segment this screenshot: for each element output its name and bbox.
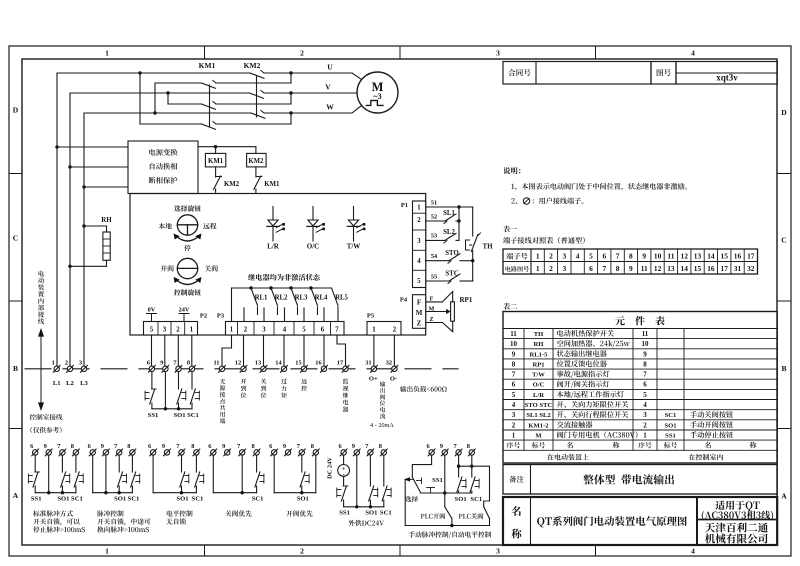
wire L2 feeder vertical: [69, 93, 71, 366]
svg-text:6: 6: [589, 264, 593, 273]
svg-text:RL4: RL4: [315, 295, 328, 302]
svg-text:1: 1: [52, 360, 55, 367]
svg-text:52: 52: [431, 214, 437, 221]
svg-text:1: 1: [372, 327, 376, 334]
svg-text:P3: P3: [217, 313, 225, 320]
svg-text:RL5: RL5: [335, 295, 348, 302]
svg-text:31: 31: [734, 264, 742, 273]
svg-text:SO1: SO1: [176, 496, 188, 503]
example G close contact SC1: [470, 455, 482, 503]
drawing number value box xqt3v: [676, 62, 777, 85]
wire phase W horizontal: [84, 106, 362, 114]
svg-text:13: 13: [255, 360, 261, 367]
node W tap junction: [153, 111, 156, 114]
note 2 text: [511, 197, 583, 204]
label terminal 14 function: [281, 379, 287, 398]
example G junction wire: [421, 491, 472, 494]
svg-text:xqt3v: xqt3v: [716, 73, 738, 83]
svg-text:8: 8: [379, 443, 382, 450]
terminal cross-reference table: [503, 249, 758, 274]
svg-text:KM2: KM2: [248, 158, 264, 165]
svg-text:3: 3: [512, 411, 516, 419]
svg-text:SC1: SC1: [380, 510, 392, 517]
title block: [503, 497, 777, 545]
svg-text:KM1: KM1: [264, 181, 280, 188]
wire W rise to KM1 upper contact: [155, 83, 202, 113]
wire phase taps into protection box: [55, 145, 128, 188]
terminal 8 row B: [187, 360, 196, 373]
frame zone column labels 1-4 top: [105, 49, 695, 58]
svg-text:4: 4: [417, 258, 421, 265]
svg-text:RH: RH: [534, 341, 545, 348]
terminal 16 row B: [315, 360, 327, 373]
svg-text:3: 3: [496, 49, 500, 58]
contact PLC open: [421, 493, 452, 526]
wires P5 to terminals 31 32: [374, 335, 395, 366]
wire phase U horizontal: [57, 73, 362, 80]
terminal 7 row B: [173, 360, 182, 373]
svg-text:SS1: SS1: [432, 477, 443, 484]
svg-text:KM1-2: KM1-2: [528, 422, 549, 429]
applicability box: [697, 500, 777, 520]
svg-text:1: 1: [105, 49, 109, 58]
svg-text:11: 11: [641, 264, 648, 273]
connector P1: [401, 201, 426, 288]
example A wire 9: [48, 455, 50, 493]
svg-text:9: 9: [512, 350, 516, 358]
example E wire 6: [273, 455, 275, 493]
svg-text:SS1: SS1: [665, 433, 676, 440]
svg-text:17: 17: [337, 360, 344, 367]
example G wire 9: [444, 455, 446, 493]
label L2: [66, 380, 74, 387]
svg-text:L3: L3: [80, 380, 88, 387]
svg-text:32: 32: [747, 264, 755, 273]
example F common bus: [344, 505, 384, 508]
svg-text:2: 2: [393, 327, 397, 334]
example A terminals 6 9 7 8: [30, 443, 79, 456]
limit switch SL2: [426, 221, 459, 243]
label L3: [80, 380, 88, 387]
frame zone column labels 1-4 bottom: [105, 547, 695, 556]
svg-text:T/W: T/W: [532, 372, 545, 379]
svg-text:P5: P5: [367, 313, 375, 320]
note 1 text: [511, 183, 687, 191]
label terminal 12 function: [241, 379, 247, 398]
arrow up internal side: [38, 328, 44, 369]
svg-text:RP1: RP1: [532, 361, 544, 368]
svg-text:10: 10: [654, 252, 662, 261]
relay contact RL2: [269, 286, 288, 314]
torque switch STO: [426, 250, 475, 263]
svg-text:6: 6: [602, 252, 606, 261]
svg-text:KM2: KM2: [224, 181, 240, 188]
svg-text:5: 5: [150, 327, 154, 334]
wire terminal 9 to common: [164, 372, 166, 409]
svg-text:O-: O-: [390, 376, 397, 383]
svg-text:KM2: KM2: [244, 61, 261, 70]
svg-text:DC 24V: DC 24V: [327, 457, 334, 479]
notes heading: [503, 167, 520, 174]
svg-text:8: 8: [616, 264, 620, 273]
resistor RH space heater: [68, 216, 112, 268]
svg-text:4: 4: [691, 547, 695, 556]
svg-text:A: A: [781, 492, 787, 501]
control knob open-close: [161, 258, 218, 295]
svg-text:9: 9: [352, 443, 355, 450]
example E wire 8: [315, 455, 317, 493]
svg-text:1: 1: [643, 432, 647, 440]
actuator control unit box U1: [130, 194, 426, 336]
svg-text:P1: P1: [401, 202, 408, 209]
example E caption: [286, 510, 312, 516]
label terminal U: [327, 63, 333, 72]
svg-text:RL1-5: RL1-5: [530, 351, 549, 358]
svg-text:13: 13: [667, 264, 675, 273]
manufacturer name: [705, 522, 768, 543]
relay contact RL1: [249, 286, 268, 314]
wire coil supply: [198, 145, 256, 148]
svg-text:17: 17: [747, 252, 755, 261]
limit switch SL1: [426, 207, 461, 224]
svg-text:8: 8: [311, 443, 314, 450]
example C common bus: [153, 491, 196, 494]
svg-text:SO1: SO1: [455, 496, 467, 503]
svg-text:3: 3: [496, 547, 500, 556]
svg-text:2: 2: [512, 421, 516, 429]
terminal 14 row B: [275, 360, 287, 373]
example B common bus: [93, 491, 133, 494]
svg-text:15: 15: [721, 252, 729, 261]
svg-text:5: 5: [417, 278, 421, 285]
example C close switch SC1: [192, 455, 204, 502]
svg-text:14: 14: [707, 252, 715, 261]
label 0V supply: [147, 307, 157, 322]
svg-text:L2: L2: [66, 380, 74, 387]
svg-text:SS1: SS1: [339, 510, 350, 517]
svg-text:RP1: RP1: [460, 296, 473, 304]
terminal 31 row B: [365, 360, 377, 373]
svg-text:8: 8: [643, 360, 647, 368]
connector P2: [144, 313, 208, 336]
relay contact bus: [232, 288, 332, 322]
svg-text:O+: O+: [369, 376, 378, 383]
remarks box: [503, 465, 777, 495]
example D wire 7: [241, 455, 243, 493]
svg-text:SS1: SS1: [31, 496, 42, 503]
wire 51 common: [426, 200, 473, 209]
terminal 1 row B: [52, 360, 61, 373]
svg-text:SC1: SC1: [470, 496, 482, 503]
frame zone row labels D C B A left: [13, 106, 19, 501]
example B terminals 6 9 7 8: [88, 443, 136, 456]
node V tap junction: [166, 91, 169, 94]
svg-text:9: 9: [101, 443, 104, 450]
svg-text:KM1: KM1: [199, 61, 216, 70]
svg-text:SC1: SC1: [252, 496, 264, 503]
svg-text:2: 2: [549, 264, 553, 273]
svg-text:12: 12: [654, 264, 662, 273]
svg-text:16: 16: [734, 252, 742, 261]
wire U drop to KM1 lower contact: [140, 73, 202, 124]
svg-text:8: 8: [127, 443, 130, 450]
example D terminals 6 9 7 8: [208, 443, 260, 456]
svg-text:4: 4: [512, 401, 516, 409]
svg-text:7: 7: [512, 371, 516, 379]
thermal switch TH: [466, 207, 494, 281]
svg-text:5: 5: [589, 252, 593, 261]
label terminal V: [325, 83, 331, 92]
svg-text:SO1: SO1: [57, 496, 69, 503]
svg-text:1: 1: [536, 264, 540, 273]
svg-text:14: 14: [275, 360, 282, 367]
svg-text:3: 3: [163, 327, 167, 334]
svg-text:O/C: O/C: [533, 382, 545, 389]
example G selector switch: [404, 455, 443, 502]
connector P5: [367, 313, 401, 336]
svg-text:12: 12: [235, 360, 241, 367]
svg-text:KM1: KM1: [208, 158, 224, 165]
power conversion protection box: [128, 141, 198, 194]
svg-text:6: 6: [512, 381, 516, 389]
relay contact RL4: [309, 286, 328, 314]
svg-text:8: 8: [512, 360, 516, 368]
svg-text:1: 1: [417, 205, 421, 212]
svg-text:SC1: SC1: [71, 496, 83, 503]
frame zone row labels D C B A right: [781, 108, 787, 501]
svg-text:2: 2: [300, 49, 304, 58]
svg-text:RL2: RL2: [275, 295, 288, 302]
svg-text:SO1: SO1: [365, 510, 377, 517]
svg-text:U: U: [327, 63, 333, 72]
svg-text:SO1: SO1: [664, 422, 676, 429]
svg-text:L1: L1: [53, 380, 61, 387]
label internal wiring vertical: [38, 271, 44, 325]
svg-text:C: C: [13, 234, 18, 243]
svg-text:3: 3: [79, 360, 82, 367]
svg-text:5: 5: [643, 391, 647, 399]
svg-text:SC1: SC1: [192, 496, 204, 503]
svg-text:8: 8: [187, 360, 190, 367]
contactor KM2 main contacts: [250, 70, 266, 118]
svg-text:16: 16: [707, 264, 715, 273]
svg-text:8: 8: [251, 443, 254, 450]
example F close button SC1: [380, 455, 392, 516]
stop button SS1 wired: [145, 372, 158, 420]
svg-text:SL1 SL2: SL1 SL2: [526, 412, 551, 419]
contact PLC close: [459, 507, 490, 526]
svg-text:3: 3: [262, 327, 266, 334]
interlock contact KM1 normally closed: [254, 167, 280, 194]
example G lower bus: [405, 479, 489, 527]
contactor KM2 label: [244, 61, 261, 70]
svg-text:8: 8: [629, 252, 633, 261]
example B open button SO1: [114, 455, 126, 502]
example B caption: [97, 510, 150, 532]
label terminal W: [326, 103, 334, 112]
svg-text:SC1: SC1: [128, 496, 140, 503]
example A stop button SS1: [28, 455, 41, 502]
drawing number box: [651, 62, 676, 85]
wire V to KM1 middle contact: [168, 93, 202, 104]
svg-text:SO1: SO1: [297, 496, 309, 503]
svg-text:5: 5: [302, 327, 306, 334]
example D wire 6: [212, 455, 214, 493]
svg-text:1: 1: [105, 547, 109, 556]
svg-text:~3: ~3: [373, 92, 381, 101]
label output position current vertical: [380, 381, 386, 418]
example A common bus: [35, 491, 76, 494]
terminal 32 row B: [386, 360, 398, 373]
svg-text:32: 32: [386, 360, 392, 367]
contract number box: [503, 62, 651, 85]
example F caption: [348, 520, 384, 526]
svg-text:31: 31: [365, 360, 371, 367]
connector P4: [400, 295, 426, 329]
svg-text:10: 10: [642, 340, 650, 348]
wires relay outputs to connector P3: [244, 308, 324, 322]
svg-text:O/C: O/C: [307, 243, 319, 251]
svg-text:P2: P2: [200, 313, 207, 320]
example C wire 6: [152, 455, 154, 493]
svg-text:RH: RH: [101, 216, 112, 224]
svg-text:10: 10: [510, 340, 518, 348]
relay contact RL5: [332, 288, 349, 322]
svg-text:F: F: [417, 299, 421, 307]
svg-text:11: 11: [213, 360, 219, 367]
svg-text:7: 7: [335, 327, 339, 334]
label terminal 15 function: [301, 379, 307, 391]
example F terminals 6 9 7 8: [338, 443, 387, 456]
svg-text:SC1: SC1: [187, 412, 199, 419]
table two heading: [503, 303, 517, 310]
svg-text:4: 4: [691, 49, 695, 58]
svg-text:9: 9: [160, 360, 163, 367]
svg-text:17: 17: [721, 264, 729, 273]
svg-text:6: 6: [643, 381, 647, 389]
svg-text:9: 9: [44, 443, 47, 450]
device boundary dashed line: [25, 368, 458, 370]
svg-text:Z: Z: [417, 320, 422, 328]
wire phase V horizontal: [70, 92, 357, 94]
terminal 15 row B: [295, 360, 307, 373]
terminal 9 row B: [160, 360, 169, 373]
svg-text:P4: P4: [400, 297, 408, 304]
svg-text:B: B: [13, 364, 18, 373]
svg-text:7: 7: [616, 252, 620, 261]
example F wire 9: [356, 455, 358, 507]
svg-text:8: 8: [467, 443, 470, 450]
svg-text:9: 9: [642, 252, 646, 261]
battery DC 24V source: [327, 455, 350, 479]
indicator lamp O/C: [307, 207, 325, 251]
svg-text:9: 9: [283, 443, 286, 450]
example G caption: [409, 531, 491, 538]
interlock contact KM2 normally closed: [214, 167, 240, 194]
svg-text:55: 55: [431, 274, 437, 281]
label 24V supply: [179, 307, 190, 322]
svg-text:W: W: [326, 103, 334, 112]
svg-text:4 - 20mA: 4 - 20mA: [370, 422, 394, 429]
example G auto level wires: [459, 466, 490, 507]
svg-text:SO1: SO1: [114, 496, 126, 503]
terminal 13 row B: [255, 360, 267, 373]
wire L1 feeder vertical: [56, 73, 58, 366]
terminal 11 row B: [213, 360, 225, 373]
svg-text:0V: 0V: [148, 307, 156, 314]
connector P3: [217, 313, 344, 336]
svg-text:TH: TH: [534, 331, 544, 338]
arrow down control-room side: [38, 369, 44, 411]
label O+ output: [369, 376, 378, 383]
label terminal 17 function: [343, 379, 349, 413]
terminal 12 row B: [235, 360, 247, 373]
svg-text:SC1: SC1: [665, 412, 677, 419]
label terminal 13 function: [261, 379, 267, 398]
svg-text:24V: 24V: [179, 307, 190, 314]
svg-text:15: 15: [295, 360, 301, 367]
contactor KM1 main contacts: [202, 80, 292, 129]
svg-text:2: 2: [300, 547, 304, 556]
indicator lamp T/W: [347, 207, 366, 251]
example E common bus: [274, 491, 316, 494]
node motor feed junctions and crossover wires: [289, 71, 292, 124]
svg-text:15: 15: [694, 264, 702, 273]
svg-text:8: 8: [191, 443, 194, 450]
svg-text:4: 4: [643, 401, 647, 409]
svg-text:11: 11: [642, 330, 649, 338]
svg-text:3: 3: [562, 252, 566, 261]
svg-text:L/R: L/R: [267, 243, 280, 251]
svg-text:9: 9: [222, 443, 225, 450]
example F stop button SS1: [337, 476, 350, 516]
svg-text:2: 2: [643, 421, 647, 429]
svg-text:53: 53: [431, 233, 437, 240]
svg-text:2: 2: [176, 327, 180, 334]
svg-text:6: 6: [321, 327, 325, 334]
example C caption: [166, 510, 192, 524]
potentiometer RP1 position feedback: [426, 292, 473, 332]
svg-text:7: 7: [602, 264, 606, 273]
svg-text:2: 2: [244, 327, 248, 334]
example F open button SO1: [365, 455, 377, 516]
svg-text:9: 9: [643, 350, 647, 358]
example D common bus: [213, 491, 256, 494]
example G terminals 6 9 7 8: [426, 443, 475, 456]
contactor coil KM1: [205, 147, 225, 167]
svg-text:M: M: [535, 433, 542, 440]
svg-text:3: 3: [562, 264, 566, 273]
close button SC1 wired: [187, 372, 199, 420]
svg-text:9: 9: [629, 264, 633, 273]
label control room wiring: [30, 414, 63, 433]
open button SO1 wired: [173, 372, 185, 420]
svg-text:A: A: [13, 491, 19, 500]
svg-text:D: D: [13, 106, 19, 115]
svg-text:2: 2: [65, 360, 68, 367]
component list table: [503, 312, 777, 464]
wires P2 to terminals 6 9 7 8: [152, 335, 192, 366]
svg-text:9: 9: [440, 443, 443, 450]
wires P3 to terminals 11-16: [222, 335, 346, 366]
svg-text:1: 1: [230, 327, 234, 334]
label O- output: [390, 376, 397, 383]
label L1: [53, 380, 61, 387]
svg-text:9: 9: [162, 443, 165, 450]
svg-text:3: 3: [417, 238, 421, 245]
selector knob local-remote: [159, 205, 217, 251]
example G open contact SO1: [455, 455, 467, 503]
